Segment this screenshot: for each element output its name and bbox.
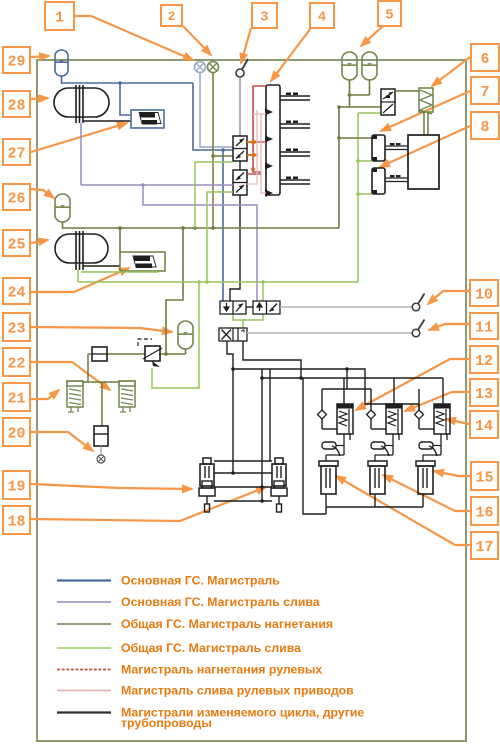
legend line: Магистрали изменяемого цикла, другие (57, 711, 111, 713)
svg-text:29: 29 (7, 53, 25, 70)
svg-text:20: 20 (7, 425, 25, 442)
wire light green riser left (194, 162, 196, 228)
svg-text:4: 4 (318, 10, 326, 26)
wire light green right riser (357, 113, 359, 282)
callout box 26 (3, 184, 30, 210)
legend line: Общая ГС. Магистраль слива (57, 647, 111, 649)
wire light green valve B to valve C (243, 314, 263, 320)
wire black tail crossovers (214, 460, 272, 462)
switch 10 (412, 294, 424, 311)
svg-text:5: 5 (385, 8, 393, 24)
svg-text:Общая ГС. Магистраль нагнетани: Общая ГС. Магистраль нагнетания (121, 617, 333, 631)
elevon actuator group 1 (items 12,17) (318, 389, 354, 494)
wire black valve C drain left (227, 341, 233, 473)
node green junctions right (356, 159, 360, 163)
filter 22 (square) (92, 347, 107, 361)
wire pink steering return 2 (261, 114, 266, 193)
leader arrow 10 (428, 291, 469, 304)
callout box 7 (471, 77, 499, 104)
leader arrow 17 (336, 476, 470, 545)
legend line: Магистраль слива рулевых приводов (57, 690, 111, 692)
leader arrow 15 (434, 471, 470, 476)
wire black pump 25 to unit 24 (83, 265, 120, 267)
wire red steering pressure (247, 86, 266, 174)
callout box 20 (3, 418, 30, 446)
leader arrow 3 (241, 28, 251, 63)
svg-text:13: 13 (475, 386, 493, 403)
wire olive down to drain pump 20 (101, 382, 103, 426)
legend line: Основная ГС. Магистраль (57, 579, 111, 581)
hand pump station 21 right (119, 381, 135, 412)
switch 11 (412, 320, 424, 337)
callout box 16 (471, 497, 498, 525)
wire light green drain collector (78, 281, 358, 283)
wire purple to valve 2 (81, 184, 233, 186)
flow arrow orange out of valve 1 top (247, 140, 259, 145)
svg-text:Основная ГС. Магистраль: Основная ГС. Магистраль (121, 574, 280, 588)
callout box 22 (3, 348, 30, 376)
wire light green from valve 6 drain (358, 112, 381, 114)
svg-text:24: 24 (7, 284, 25, 301)
accumulator 5a (342, 52, 357, 80)
svg-text:28: 28 (7, 97, 25, 114)
wire olive branch into valve 1 (213, 155, 233, 157)
wire olive hand pump header (83, 381, 119, 383)
callout box 13 (470, 379, 498, 406)
wire olive drain line 2 (212, 73, 214, 229)
svg-text:10: 10 (475, 286, 493, 303)
wire light green drain from pump 25 (77, 270, 79, 282)
callout box 12 (470, 346, 498, 373)
wire black cylinder rods bottom (325, 494, 327, 514)
servo unit 8 (372, 168, 408, 194)
wire light green from valve 2 (207, 192, 233, 282)
wire light green to valve B (262, 282, 264, 301)
leader arrow 28 (31, 98, 48, 99)
wire olive to valve 6 (339, 106, 381, 108)
wire blue from accumulator 29 (62, 76, 194, 83)
leader arrow 25 (31, 240, 48, 243)
leader arrow 4 (271, 28, 311, 81)
wire light green to unit 8 (358, 193, 372, 195)
callout box 21 (3, 383, 30, 411)
wire light green to relief loop (152, 282, 199, 388)
leader arrow 6 (432, 57, 470, 86)
wire black diamond 3 feed (418, 404, 420, 410)
svg-text:18: 18 (7, 513, 25, 530)
drain connector 2 (circle) (208, 62, 219, 73)
shutoff valve C (with X symbol) (219, 328, 247, 341)
svg-text:8: 8 (480, 119, 489, 136)
leader arrow 21 (31, 390, 59, 399)
svg-text:21: 21 (7, 390, 25, 407)
wire purple to valve B (143, 185, 257, 301)
node purple junction (141, 183, 145, 187)
svg-text:Основная ГС. Магистраль слива: Основная ГС. Магистраль слива (121, 595, 320, 609)
callout box 17 (471, 532, 498, 559)
svg-text:трубопроводы: трубопроводы (121, 716, 212, 730)
wire light green to unit 7 (358, 160, 372, 162)
wire purple from pump 28 (80, 123, 82, 185)
legend line: Магистраль нагнетания рулевых (57, 669, 111, 671)
tail actuator 18 (271, 458, 287, 512)
drain connector 1 (circle) (195, 62, 206, 73)
drain port (circle-x) below pump 20 (97, 446, 105, 463)
elevon actuator group 3 (items 14,15) (415, 389, 451, 494)
wire light green stub (81, 271, 158, 273)
pump unit 24 (120, 252, 165, 271)
flow arrow orange out of valve 1 bottom (247, 153, 259, 158)
svg-text:15: 15 (475, 469, 493, 486)
node olive junction (348, 93, 352, 97)
callout box 25 (3, 230, 30, 256)
leader arrow 24 (31, 268, 129, 292)
legend line: Общая ГС. Магистраль нагнетания (57, 623, 111, 625)
leader arrow 14 (446, 419, 469, 424)
svg-text:6: 6 (480, 51, 489, 68)
node black junction (231, 367, 235, 371)
leader arrow 20 (31, 432, 93, 451)
svg-text:19: 19 (7, 478, 25, 495)
wire gray switch 3 to valve 1 (239, 77, 241, 136)
callout box 29 (3, 47, 30, 73)
svg-text:16: 16 (475, 504, 493, 521)
svg-text:22: 22 (7, 355, 25, 372)
elevon actuator group 2 (items 13,16) (367, 389, 403, 494)
callout box 24 (3, 278, 30, 304)
schematic border frame (37, 60, 466, 741)
svg-text:3: 3 (260, 10, 268, 26)
pump unit 27 (131, 110, 164, 128)
switch 3 (236, 59, 248, 77)
wire connector valve1-valve2 (239, 161, 241, 170)
wire olive accumulator 23 stem (185, 349, 187, 354)
steering actuator column (266, 85, 310, 197)
wire gray to switch 11 (247, 332, 412, 334)
wire light green valve A drain (233, 314, 243, 328)
engine gearbox block (408, 135, 439, 189)
pump 28 (54, 85, 109, 123)
servo unit 7 (372, 135, 408, 161)
leader arrow 16 (383, 475, 470, 511)
svg-text:14: 14 (475, 418, 493, 435)
relief valve 6 spring box (419, 88, 433, 114)
svg-text:Общая ГС. Магистраль слива: Общая ГС. Магистраль слива (121, 641, 301, 655)
callout box 19 (3, 471, 30, 499)
wire black feeds to tail cylinders (261, 369, 263, 501)
wire olive accumulator header (349, 80, 351, 95)
svg-text:17: 17 (475, 539, 493, 556)
wire pink stub (253, 113, 266, 115)
wire black manifold main (233, 369, 419, 404)
wire olive main riser x339 (338, 107, 340, 228)
valve 2 (two-section control valve) (233, 170, 247, 195)
callout box 28 (3, 91, 30, 117)
wire olive from accumulator 26 (63, 222, 340, 228)
accumulator 26 (55, 194, 70, 222)
node blue junction at valve feed (221, 148, 225, 152)
wire blue main down to valves (193, 83, 233, 150)
wire black pump 28 to unit 27 (83, 120, 131, 122)
callout box 18 (3, 506, 30, 534)
svg-text:2: 2 (168, 9, 176, 24)
selector valve A (220, 301, 246, 314)
leader arrow 12 (356, 359, 469, 410)
pump 25 (55, 231, 108, 270)
wire pink steering return (247, 110, 257, 184)
accumulator 5b (362, 52, 377, 80)
accumulator 29 (55, 50, 68, 76)
wire black left riser to cylinders (303, 378, 326, 514)
svg-text:26: 26 (7, 190, 25, 207)
wire olive to unit 7 (339, 137, 372, 139)
leader arrow 13 (405, 392, 469, 411)
wire red stub to column (253, 141, 266, 143)
node olive junction (164, 352, 168, 356)
hand pump station 21 left (67, 381, 83, 412)
tail actuator 19 (199, 458, 215, 512)
callout box 15 (471, 462, 498, 490)
wire blue down to selector valve A (222, 150, 224, 301)
svg-text:7: 7 (480, 84, 489, 101)
callout box 3 (252, 3, 277, 28)
wire olive valve 6 to relief spring (395, 90, 419, 92)
callout box 11 (470, 313, 498, 339)
leader arrow 1 (75, 16, 193, 60)
wire olive down to hand pumps (87, 354, 89, 382)
callout box 2 (161, 5, 182, 26)
leader arrow 27 (31, 123, 127, 152)
callout box 10 (470, 280, 498, 306)
callout box 4 (310, 3, 334, 28)
leader arrow 5 (361, 26, 383, 46)
wire black drain of valve 2 down to valve A (230, 195, 240, 301)
wire connector A-B (246, 306, 253, 308)
wire olive branch to pump unit 24 (119, 228, 121, 258)
node olive junctions on main (118, 226, 122, 230)
drain pump 20 (94, 426, 108, 446)
leader arrow 2 (183, 26, 211, 55)
node red junctions (251, 140, 255, 144)
leader arrow 7 (381, 91, 470, 131)
leader arrow 22 (31, 362, 110, 390)
leader arrow 18 (31, 487, 266, 521)
wire olive riser (349, 95, 351, 107)
wire light green into valve 1 (195, 161, 233, 163)
leader arrow 26 (31, 189, 54, 198)
wire gray to switch 10 (280, 306, 412, 308)
svg-text:1: 1 (55, 9, 64, 26)
leader arrow 23 (31, 327, 172, 332)
callout box 1 (45, 2, 74, 30)
callout box 14 (470, 411, 498, 438)
svg-text:12: 12 (475, 353, 493, 370)
node green junctions (197, 280, 201, 284)
wire black branch to diamonds (346, 369, 348, 389)
svg-text:23: 23 (7, 320, 25, 337)
node blue junction (118, 81, 122, 85)
accumulator 23 (178, 321, 193, 349)
callout box 23 (3, 313, 30, 341)
wire blue branch to pump unit 27 (120, 83, 131, 115)
legend line: Основная ГС. Магистраль слива (57, 601, 111, 603)
wire olive supply line y354 (88, 353, 92, 355)
wire olive spring box to block 8 (423, 112, 425, 135)
svg-text:Магистраль слива рулевых приво: Магистраль слива рулевых приводов (121, 684, 354, 698)
wire black feeds to group valves (343, 378, 345, 404)
svg-text:27: 27 (7, 145, 25, 162)
svg-text:11: 11 (475, 319, 493, 336)
wire olive branch to accumulator 23 zone (166, 228, 183, 354)
leader arrow 29 (31, 56, 49, 57)
valve 6 (two-position valve) (381, 89, 395, 115)
svg-text:Магистраль нагнетания рулевых: Магистраль нагнетания рулевых (121, 663, 322, 677)
node black junctions (231, 471, 235, 475)
leader arrow 11 (429, 324, 469, 330)
callout box 27 (3, 139, 30, 165)
relief valve (pressure regulator) (138, 339, 162, 367)
callout box 5 (378, 1, 401, 26)
wire black valve C drain right (243, 341, 301, 378)
callout box 8 (471, 112, 499, 139)
svg-text:25: 25 (7, 236, 25, 253)
node olive junctions (337, 105, 341, 109)
valve 1 (two-section control valve) (233, 136, 247, 161)
callout box 6 (471, 44, 499, 71)
selector valve B (253, 301, 280, 314)
leader arrow 19 (31, 484, 192, 489)
wire black distribution header (262, 377, 443, 379)
leader arrow 8 (380, 126, 470, 167)
wire gray-blue drain line 1 (200, 73, 233, 148)
